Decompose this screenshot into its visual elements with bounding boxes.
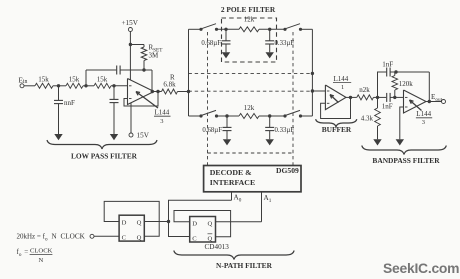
node buffer output [349, 96, 352, 99]
svg-text:N-PATH FILTER: N-PATH FILTER [216, 261, 273, 270]
wire non-inverting to ground [400, 107, 404, 139]
node junction [268, 114, 271, 117]
wire control left (dashed) [207, 32, 209, 166]
svg-text:15k: 15k [38, 76, 49, 84]
svg-text:D: D [122, 220, 127, 227]
capacitor 0.33uF top [269, 29, 271, 41]
op-amp U2 L144 buffer [325, 85, 346, 110]
node junction Rset [129, 43, 132, 46]
svg-text:DG509: DG509 [276, 166, 299, 175]
svg-text:C: C [122, 235, 127, 242]
svg-text:N: N [39, 257, 44, 264]
ground [266, 139, 274, 145]
wire FF2 Q out to A1 [216, 221, 262, 223]
svg-text:1nF: 1nF [382, 60, 393, 68]
dashed box 2 pole filter [222, 18, 277, 62]
svg-text:n2k: n2k [359, 86, 370, 94]
svg-text:15k: 15k [97, 76, 108, 84]
svg-text:3: 3 [422, 119, 425, 126]
brace low pass filter [47, 140, 157, 149]
svg-text:L144: L144 [334, 75, 349, 83]
svg-text:15k: 15k [69, 76, 80, 84]
svg-text:Q: Q [137, 220, 142, 227]
node junction c1 [57, 84, 60, 87]
capacitor c2 [113, 86, 115, 100]
svg-text:Q: Q [208, 236, 213, 243]
resistor 15k (first) [35, 83, 53, 88]
wire A0 [231, 192, 233, 200]
node right riser dots [311, 72, 314, 75]
svg-text:N: N [52, 233, 57, 241]
wire output [426, 101, 442, 103]
capacitor 0.68uF bottom [226, 116, 228, 127]
wire feedback to output [121, 69, 153, 71]
block DECODE & INTERFACE DG509 [204, 166, 301, 192]
ground [110, 134, 118, 140]
svg-text:+15V: +15V [122, 19, 139, 27]
svg-text:LOW PASS FILTER: LOW PASS FILTER [71, 152, 138, 161]
ground [396, 139, 404, 145]
node output junction [428, 100, 431, 103]
resistor RSET 3M [143, 45, 145, 48]
svg-text:C: C [192, 236, 197, 243]
wire to top cap [378, 72, 387, 97]
svg-text:INTERFACE: INTERFACE [210, 178, 255, 187]
svg-text:BANDPASS FILTER: BANDPASS FILTER [372, 156, 440, 165]
wire [53, 85, 66, 87]
brace n-path filter [174, 251, 294, 260]
svg-text:DECODE &: DECODE & [210, 168, 252, 177]
node junction [268, 28, 271, 31]
wire [391, 71, 430, 73]
wire to op-amp input [391, 96, 404, 98]
wire [83, 85, 94, 87]
ground [222, 52, 230, 58]
wire bottom row [189, 115, 202, 117]
capacitor 1nF bottom [386, 93, 388, 102]
ground [223, 139, 231, 145]
svg-text:20kHz = fo: 20kHz = fo [17, 233, 48, 243]
wire FF2 clock [169, 222, 190, 237]
svg-text:2 POLE FILTER: 2 POLE FILTER [221, 5, 276, 14]
ground [266, 52, 274, 58]
flip-flop FF2 CD4013 [190, 217, 216, 243]
capacitor 0.68uF top [225, 29, 227, 41]
wire to op-amp [111, 85, 128, 87]
svg-text:fo: fo [17, 248, 22, 258]
svg-text:0.68µF: 0.68µF [202, 127, 222, 134]
node junction feedback [84, 84, 87, 87]
capacitor 0.33uF bottom [269, 116, 271, 127]
svg-text:Q: Q [137, 235, 142, 242]
op-amp U1 arrow [136, 92, 158, 108]
svg-text:Q: Q [208, 221, 213, 228]
svg-text:1nF: 1nF [382, 103, 393, 111]
wire [217, 28, 240, 30]
op-amp U1 L144 (low pass) [128, 79, 155, 105]
wire FF2 Qbar overbar [208, 233, 213, 235]
brace buffer [316, 119, 357, 127]
svg-text:CD4013: CD4013 [205, 243, 230, 251]
node junction c2 [112, 84, 115, 87]
wire FF2 feedback Qbar to D [174, 211, 231, 237]
svg-text:A1: A1 [264, 194, 272, 204]
resistor 15k (second) [66, 83, 83, 88]
svg-text:CLOCK: CLOCK [30, 248, 53, 255]
node left riser junction [187, 90, 190, 93]
svg-text:0.68µF: 0.68µF [201, 40, 221, 47]
ground [373, 139, 381, 145]
node junction [225, 114, 228, 117]
wire [217, 115, 240, 117]
op-amp U3 arrow [410, 100, 422, 111]
svg-text:D: D [192, 221, 197, 228]
wire buffer input [312, 90, 325, 92]
svg-text:nnF: nnF [64, 99, 75, 107]
resistor n2k [357, 95, 374, 100]
svg-text:L144: L144 [416, 110, 431, 118]
wire buffer feedback [321, 97, 351, 118]
op-amp U2 arrow [330, 95, 339, 103]
resistor 4.3k [377, 97, 379, 108]
wire unity feedback loop [124, 92, 158, 107]
wire output [154, 91, 162, 93]
ground [54, 134, 62, 140]
svg-text:L144: L144 [155, 109, 170, 117]
brace bandpass [362, 146, 447, 155]
wire to Rset [130, 44, 144, 46]
wire top row [189, 28, 202, 30]
-15V supply terminal [130, 103, 132, 133]
switch S3 [199, 114, 202, 117]
node junction Rset bottom [142, 68, 145, 71]
svg-text:120k: 120k [399, 80, 414, 88]
wire [301, 28, 313, 30]
svg-text:6.8k: 6.8k [163, 80, 176, 88]
node Eout terminal [442, 100, 446, 104]
node junction [393, 96, 396, 99]
wire FF1 feedback Qbar to D [104, 201, 159, 236]
svg-text:3: 3 [160, 118, 163, 125]
svg-text:3M: 3M [149, 52, 160, 60]
switch S2 [283, 28, 286, 31]
svg-text:0.33µF: 0.33µF [275, 127, 295, 134]
node output dots [151, 90, 154, 93]
wire [259, 28, 285, 30]
svg-text:CLOCK: CLOCK [61, 233, 86, 241]
capacitor feedback [116, 66, 118, 75]
resistor 12k bottom [239, 114, 259, 119]
wire feedback top [86, 69, 116, 71]
flip-flop FF1 CD4013 [119, 215, 144, 241]
switch S4 [283, 114, 286, 117]
wire FF1 Q out [144, 221, 168, 223]
resistor 12k top [239, 27, 259, 32]
svg-text:BUFFER: BUFFER [322, 125, 352, 134]
svg-text:A0: A0 [234, 194, 242, 204]
resistor 15k (third) [94, 83, 111, 88]
svg-text:SeekIC.com: SeekIC.com [383, 260, 459, 276]
svg-text:12k: 12k [244, 104, 255, 112]
node junction FF1Q [167, 220, 170, 223]
wire left riser [188, 29, 190, 116]
wire A1 [261, 192, 263, 222]
wire feedback down [428, 72, 430, 102]
wire control rail (dashed) [208, 152, 294, 154]
wire control right (dashed) [292, 32, 294, 166]
node junction 120k [394, 70, 397, 73]
wire [259, 115, 285, 117]
wire phantom channel row 2 (dashed) [189, 90, 313, 92]
node junction bandpass [376, 96, 379, 99]
wire clock [94, 235, 119, 237]
svg-text:15V: 15V [137, 132, 150, 140]
wire phantom channel row (dashed) [189, 72, 313, 74]
wire [346, 96, 357, 98]
svg-text:4.3k: 4.3k [361, 115, 374, 123]
capacitor 1nF top [386, 68, 388, 77]
wire feedback riser [85, 70, 87, 86]
wire right riser [311, 29, 313, 116]
svg-text:12k: 12k [244, 16, 255, 24]
resistor 120k [394, 72, 396, 76]
op-amp U3 L144 bandpass [404, 90, 427, 113]
svg-text:=: = [24, 248, 28, 256]
switch S1 [199, 28, 202, 31]
svg-text:1: 1 [341, 84, 344, 91]
wire [301, 115, 313, 117]
svg-text:0.33µF: 0.33µF [275, 40, 295, 47]
node junction [224, 28, 227, 31]
capacitor nnF [58, 86, 60, 101]
